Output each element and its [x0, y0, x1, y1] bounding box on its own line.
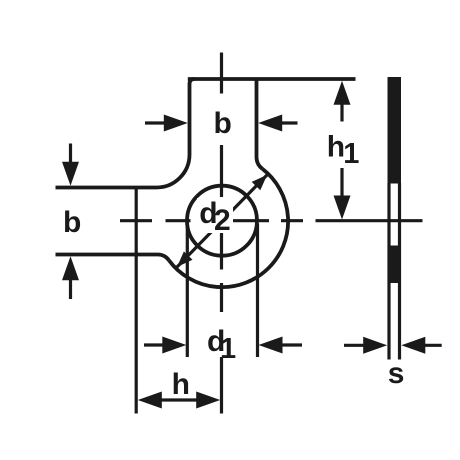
dimension b (top tab) left arrow: [145, 115, 298, 132]
dimension d1 right arrow: [281, 343, 302, 346]
washer top edge line (tab top, extended right as h1 extension line): [188, 77, 356, 81]
washer outline: left tab bottom edge with fillet into outer arc: [56, 254, 169, 260]
dimension h1 lower arrow (pointing down): [340, 168, 343, 196]
dimension d2 diagonal line: [177, 175, 267, 267]
dimension b (left tab) up arrow: [69, 278, 72, 299]
d2 upper-right arrowhead: [252, 175, 268, 191]
dimension s left arrow: [344, 337, 442, 354]
horizontal centerline of washer: [120, 219, 303, 222]
dimension b (left tab) down arrow: [62, 144, 79, 300]
svg-text:b: b: [63, 206, 81, 239]
side view section bar: [388, 77, 402, 360]
d2 lower-left arrowhead: [177, 251, 193, 267]
dimension h1 upper arrow (pointing up): [334, 81, 351, 220]
svg-text:2: 2: [214, 204, 231, 237]
centerlines: [120, 53, 423, 414]
dimension d1 left arrow: [144, 337, 302, 354]
label d2 (white backing over diagonal): [197, 198, 233, 233]
horizontal centerline through side view (h1 lower reference): [316, 219, 423, 222]
svg-text:1: 1: [220, 333, 236, 365]
svg-text:s: s: [388, 357, 405, 390]
dimension h double arrow: [138, 392, 220, 409]
dimension s right arrow: [424, 344, 442, 347]
h extension line (left): [135, 186, 138, 414]
svg-text:1: 1: [343, 138, 359, 170]
inner hole circle: [187, 186, 257, 256]
vertical centerline of washer: [220, 53, 223, 414]
svg-text:h: h: [172, 368, 190, 401]
washer outline: left tab top edge with fillet into top tab left edge: [56, 79, 195, 188]
washer outline: top tab right edge with fillet into outer arc: [256, 79, 262, 169]
svg-text:b: b: [214, 107, 232, 140]
d1 extension lines: [187, 221, 257, 357]
washer outer rim arc (half circle around lower-right): [169, 169, 288, 287]
dimension b (top tab) right arrow: [280, 121, 298, 124]
